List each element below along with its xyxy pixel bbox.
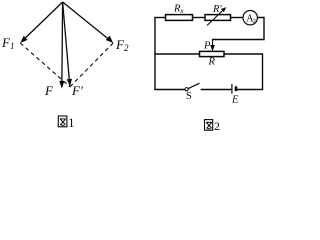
dashed construction line from F2 tip <box>70 43 113 87</box>
svg-text:2: 2 <box>214 119 220 133</box>
svg-text:F: F <box>44 83 54 98</box>
slider P arrow <box>210 39 215 52</box>
vector F1 <box>20 2 62 43</box>
wire: battery to switch <box>201 89 232 91</box>
svg-text:F′: F′ <box>71 83 83 98</box>
svg-text:Rx: Rx <box>173 4 184 16</box>
svg-text:P: P <box>203 41 211 52</box>
vector F' <box>63 2 72 87</box>
wire: top left segment <box>154 17 165 19</box>
svg-text:R: R <box>208 57 216 68</box>
svg-text:1: 1 <box>68 116 74 130</box>
rheostat R' arrow <box>207 7 226 25</box>
resistor Rx <box>166 15 193 21</box>
svg-text:F1: F1 <box>1 35 14 51</box>
svg-text:E: E <box>231 95 239 106</box>
svg-text:R′: R′ <box>212 4 222 15</box>
svg-text:F2: F2 <box>115 37 129 53</box>
dashed construction line from F1 tip <box>20 43 70 87</box>
switch S <box>185 83 200 91</box>
svg-text:S: S <box>186 91 192 102</box>
wire: R' to ammeter <box>231 17 244 19</box>
wire: middle left segment <box>154 53 199 55</box>
wire: bottom right segment <box>237 89 264 91</box>
wire: circuit left vertical <box>154 18 156 90</box>
battery E <box>232 84 236 94</box>
wire: bottom left segment <box>154 89 185 91</box>
vector F <box>59 2 64 89</box>
wire: middle right segment and lower right vertical <box>224 54 263 90</box>
ammeter A2 <box>243 11 257 25</box>
wire: slider feed from right vertical to P <box>213 39 265 41</box>
svg-text:2: 2 <box>253 18 256 25</box>
wire: between Rx and R' <box>193 17 206 19</box>
caption 图2 <box>205 120 213 131</box>
wire: ammeter to top-right corner and down <box>257 18 264 40</box>
rheostat R' box <box>205 15 231 21</box>
caption 图1 <box>58 116 67 127</box>
vector F2 <box>63 2 114 43</box>
resistor R <box>200 51 225 56</box>
